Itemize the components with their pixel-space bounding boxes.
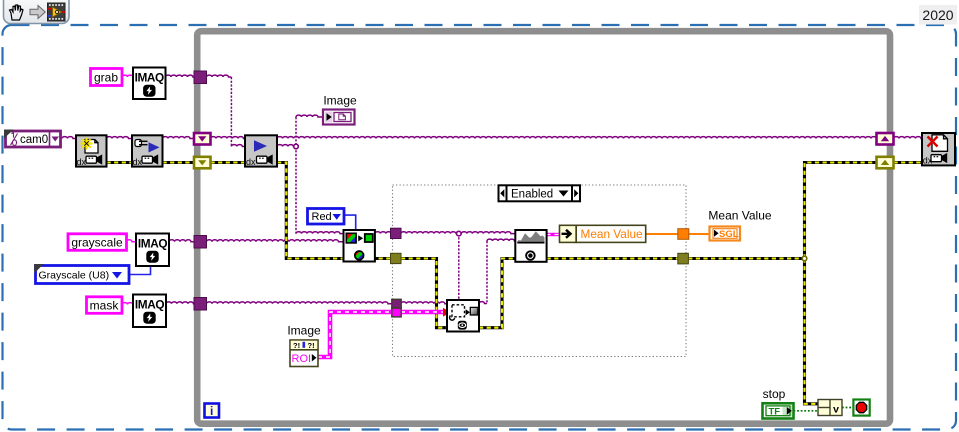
wire: image branch down to ExtractSingleColorPlane [295, 147, 297, 234]
junction: extracted image branch [457, 231, 462, 236]
cam0 session control [4, 130, 61, 148]
toolbar VI icon [48, 3, 66, 21]
wire: mask image to loop tunnel [166, 302, 194, 304]
wire: mask image tunnel to case tunnel [207, 302, 393, 304]
wire: Red enum to Extract plane select [344, 215, 356, 230]
shift register left (error) [194, 157, 211, 169]
IMAQdx Configure Grab [132, 135, 163, 167]
svg-text:i: i [210, 404, 213, 418]
wire: Histogram report cluster to Unbundle [547, 233, 560, 236]
shift register right (session) [877, 133, 894, 145]
loop tunnel: grayscale image [194, 236, 207, 249]
shift register right (error) [877, 157, 894, 169]
IMAQdx Open Camera [76, 135, 107, 167]
enum constant Grayscale (U8) [34, 264, 129, 284]
svg-text:?!: ?! [293, 341, 300, 350]
IMAQ ExtractSingleColorPlane [344, 230, 375, 262]
string constant grab [91, 69, 123, 86]
enum constant Red [308, 209, 345, 225]
wire: grayscale image to loop tunnel [169, 240, 194, 242]
Or function [818, 400, 842, 416]
wire: Mean Value orange to case tunnel and SGL indicator [646, 233, 678, 235]
wire: image branch up to Image indicator [295, 117, 297, 147]
svg-text:IMAQ: IMAQ [138, 237, 167, 251]
wire: grayscale string to IMAQ Create [127, 240, 137, 242]
svg-text:v: v [833, 403, 839, 415]
wire: Grayscale(U8) enum to IMAQ Create image-type [129, 266, 151, 275]
toolbar run arrow icon [30, 6, 45, 19]
stop boolean control [763, 403, 794, 418]
svg-text:SGL: SGL [719, 229, 739, 240]
svg-text:2020: 2020 [922, 7, 953, 23]
Image indicator (top) [323, 110, 355, 125]
wire: error left SR to Grab [211, 161, 246, 164]
svg-text:IMAQ: IMAQ [135, 71, 164, 85]
junction: error branch [802, 256, 807, 261]
wire: ROI property to case tunnel and ROI-mask block [318, 312, 443, 357]
svg-text:dx: dx [246, 157, 256, 167]
wire: error case tunnel to junction, up to right SR, down to Or [688, 257, 804, 260]
svg-text:grab: grab [94, 71, 118, 85]
IMAQdx Close Camera [922, 133, 955, 166]
loop tunnel: mask image [194, 298, 207, 311]
string constant grayscale [68, 234, 127, 251]
svg-text:mask: mask [90, 298, 120, 312]
wire: error right SR to Close [894, 161, 923, 164]
IMAQ ROIToMask block [447, 300, 479, 332]
loop iteration terminal i [205, 404, 220, 418]
loop tunnel: grab image [194, 71, 207, 84]
svg-text:dx: dx [133, 157, 143, 167]
wire: session left SR to Grab [211, 137, 246, 139]
case tunnel: error out (olive) [678, 253, 689, 264]
case selector label Enabled [499, 185, 581, 201]
svg-text:Enabled: Enabled [511, 189, 553, 201]
Unbundle By Name: Mean Value [560, 225, 646, 242]
svg-text:ROI: ROI [292, 353, 312, 365]
IMAQdx Grab [245, 135, 277, 167]
IMAQ Histogram block [515, 230, 546, 262]
wire: grab string to IMAQ Create [122, 75, 133, 77]
svg-text:cam0: cam0 [20, 134, 48, 146]
wire: error Configure to left SR [163, 161, 195, 164]
property node Image.ROI [290, 340, 318, 367]
IMAQ Create (grayscale) [136, 234, 169, 267]
svg-text:dx: dx [77, 157, 87, 167]
wire: mask string to IMAQ Create [122, 303, 133, 305]
wire: stop boolean to Or [794, 410, 819, 412]
wire: session Configure to left shift register [163, 137, 195, 139]
svg-text:TF: TF [769, 406, 781, 417]
svg-text:Image: Image [287, 324, 321, 338]
loop condition terminal (stop sign) [853, 400, 869, 416]
version box 2020 [919, 5, 957, 25]
case structure border [393, 185, 687, 357]
svg-text:Image: Image [323, 93, 357, 107]
Mean Value SGL indicator [710, 227, 741, 241]
wire: error ROI-mask up through Histogram to case-out [479, 259, 686, 328]
svg-text:Mean Value: Mean Value [581, 227, 644, 241]
wire: extracted image tunnel to Histogram, junction branch [401, 232, 515, 234]
wire: mask image case tunnel to ROI-mask block [401, 302, 447, 304]
svg-text:grayscale: grayscale [71, 235, 123, 249]
wire: grayscale image tunnel to Extract dst [207, 240, 344, 242]
wire: grab image IMAQ Create to loop tunnel [166, 75, 195, 77]
wire: session right SR to Close [894, 137, 923, 139]
svg-text:Grayscale (U8): Grayscale (U8) [39, 270, 110, 282]
wire: Grab image-out to junction [277, 145, 296, 147]
while loop border [197, 31, 890, 424]
IMAQ Create (mask) [133, 295, 166, 328]
toolbar panel [4, 0, 70, 24]
svg-text:Mean Value: Mean Value [708, 209, 771, 223]
svg-text:stop: stop [763, 387, 786, 401]
wire: error Grab down to Extract [277, 163, 393, 259]
case tunnel: Mean Value out (orange) [678, 229, 689, 240]
wire: Or to loop condition terminal [842, 407, 853, 409]
svg-text:?!: ?! [308, 341, 315, 350]
wire: error Open to Configure [107, 161, 133, 164]
wire: error case-in down around to ROI-mask block [401, 259, 479, 328]
case tunnel pair: mask image + ROI [392, 299, 401, 317]
case tunnel: error in (olive) [391, 253, 402, 263]
toolbar hand icon [10, 5, 24, 20]
wire: IMAQdx session cam0 to Open [62, 137, 76, 139]
string constant mask [87, 297, 123, 314]
shift register left (session) [194, 133, 211, 145]
wire: Extract out to case tunnel [375, 232, 392, 234]
wire: ROI-mask block out up to Histogram mask-in [479, 302, 487, 304]
case tunnel: image in (purple) [391, 228, 402, 238]
wire: session Open to Configure [107, 137, 133, 139]
wire: session Grab to right shift register [277, 137, 877, 139]
junction: image-out branch [294, 144, 299, 149]
coercion dot red arrow at ROI input [443, 308, 451, 317]
IMAQ Create (grab) [133, 68, 166, 100]
wire: grab image tunnel to Grab image-in [207, 75, 232, 77]
svg-text:IMAQ: IMAQ [135, 298, 164, 312]
svg-text:Red: Red [312, 211, 332, 223]
